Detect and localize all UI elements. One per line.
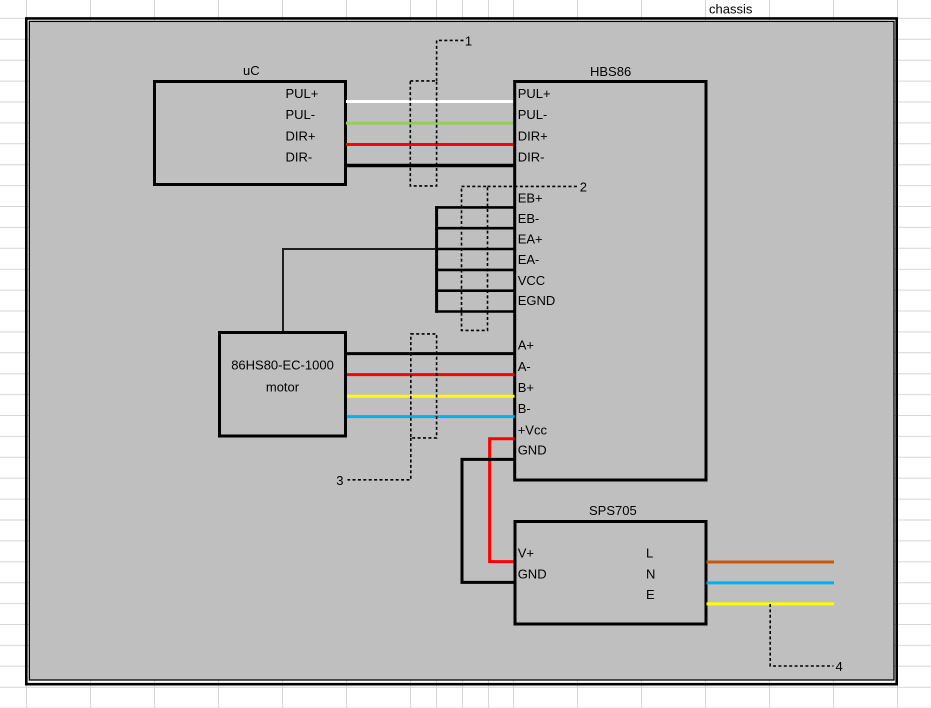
- motor 86HS80-EC-1000: [220, 333, 346, 437]
- svg-text:HBS86: HBS86: [590, 64, 631, 79]
- svg-text:motor: motor: [266, 380, 300, 395]
- cable bundle 1 dashed outline: [410, 81, 436, 186]
- svg-text:2: 2: [580, 179, 587, 194]
- svg-text:A+: A+: [518, 338, 534, 353]
- wire PUL- green: [346, 122, 515, 125]
- wire GND black: [462, 459, 515, 582]
- svg-text:4: 4: [836, 659, 843, 674]
- callout line 3: [348, 438, 411, 480]
- wire B+ yellow: [347, 395, 515, 398]
- wire A- red: [347, 373, 515, 376]
- svg-text:B-: B-: [518, 401, 531, 416]
- encoder connector bus vertical: [435, 206, 438, 313]
- svg-text:uC: uC: [243, 63, 260, 78]
- wire encoder EGND: [435, 310, 514, 313]
- svg-text:DIR+: DIR+: [518, 128, 548, 143]
- wire encoder EB-: [435, 227, 514, 230]
- wire encoder EA-: [435, 269, 514, 272]
- callout line 1: [437, 40, 464, 81]
- wire N blue: [707, 581, 835, 584]
- wire DIR+ red: [346, 143, 515, 146]
- svg-text:EA+: EA+: [518, 231, 543, 246]
- svg-text:1: 1: [465, 33, 472, 48]
- power supply SPS705: [515, 503, 706, 624]
- svg-text:E: E: [646, 587, 655, 602]
- svg-text:DIR-: DIR-: [518, 149, 545, 164]
- cable bundle 3 dashed outline: [411, 334, 437, 438]
- svg-text:L: L: [646, 546, 653, 561]
- svg-text:VCC: VCC: [518, 273, 545, 288]
- cable bundle 2 dashed outline: [462, 186, 488, 330]
- wire encoder EB+: [435, 206, 514, 209]
- svg-text:GND: GND: [518, 566, 547, 581]
- svg-text:GND: GND: [518, 443, 547, 458]
- svg-text:PUL-: PUL-: [286, 107, 316, 122]
- callout line 4: [770, 604, 833, 666]
- wire encoder EA+: [435, 248, 514, 251]
- svg-text:PUL-: PUL-: [518, 107, 548, 122]
- svg-text:+Vcc: +Vcc: [518, 422, 548, 437]
- svg-text:SPS705: SPS705: [589, 503, 637, 518]
- wire L brown: [707, 561, 835, 564]
- wire encoder cable from motor: [283, 249, 436, 333]
- svg-text:3: 3: [336, 473, 343, 488]
- svg-text:N: N: [646, 566, 655, 581]
- svg-text:B+: B+: [518, 380, 534, 395]
- svg-text:EB+: EB+: [518, 191, 543, 206]
- wire A+ black: [347, 352, 515, 355]
- driver HBS86: [515, 64, 706, 480]
- svg-text:PUL+: PUL+: [518, 86, 551, 101]
- svg-text:86HS80-EC-1000: 86HS80-EC-1000: [231, 358, 334, 373]
- wire E yellow: [707, 602, 835, 605]
- wire +Vcc red: [490, 439, 515, 562]
- svg-text:A-: A-: [518, 359, 531, 374]
- svg-text:DIR-: DIR-: [286, 149, 313, 164]
- callout line 2: [488, 185, 579, 187]
- wire encoder VCC: [435, 289, 514, 292]
- svg-text:EB-: EB-: [518, 211, 540, 226]
- svg-text:EA-: EA-: [518, 252, 540, 267]
- svg-text:DIR+: DIR+: [286, 128, 316, 143]
- wire B- blue: [347, 415, 515, 418]
- svg-text:PUL+: PUL+: [286, 86, 319, 101]
- wire PUL+ white: [346, 100, 515, 103]
- svg-text:EGND: EGND: [518, 293, 556, 308]
- IC uC microcontroller: [155, 63, 346, 185]
- svg-text:V+: V+: [518, 546, 534, 561]
- svg-text:chassis: chassis: [709, 2, 753, 17]
- wire DIR- black: [346, 164, 515, 168]
